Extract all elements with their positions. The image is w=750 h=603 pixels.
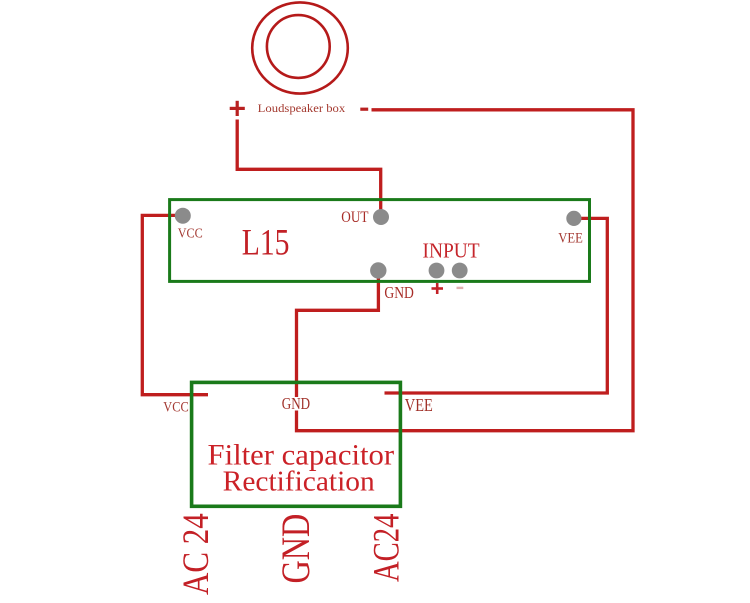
svg-text:AC 24: AC 24: [176, 513, 217, 595]
svg-text:GND: GND: [282, 394, 310, 413]
terminal + of loudspeaker: [230, 101, 245, 116]
svg-text:OUT: OUT: [341, 209, 369, 226]
pad VCC of L15: [175, 208, 191, 224]
svg-text:VCC: VCC: [163, 399, 188, 415]
loudspeaker SP1 inner ring: [267, 15, 330, 78]
svg-text:INPUT: INPUT: [423, 239, 480, 262]
pad OUT of L15: [373, 209, 389, 225]
pad GND of L15: [370, 262, 386, 278]
svg-text:Loudspeaker box: Loudspeaker box: [258, 102, 346, 115]
svg-text:VCC: VCC: [178, 226, 203, 241]
svg-text:VEE: VEE: [558, 231, 583, 247]
wire from - terminal to GND net (right side loop down to filter board GND): [297, 110, 634, 431]
label + of INPUT: [432, 283, 444, 294]
wire from L15 GND pad down-left to filter board GND: [297, 272, 379, 399]
svg-text:VEE: VEE: [405, 395, 433, 415]
svg-text:L15: L15: [242, 222, 290, 263]
wire from L15 VEE pad to filter board VEE: [385, 218, 608, 393]
svg-text:Rectification: Rectification: [223, 465, 375, 497]
board U1 L15 amplifier outline: [170, 200, 590, 282]
pad INPUT -: [452, 263, 468, 279]
loudspeaker SP1 outer ring: [252, 2, 348, 93]
white backing of filter GND label: [280, 397, 312, 411]
svg-text:GND: GND: [384, 283, 414, 302]
board U2 filter capacitor rectification outline: [192, 382, 401, 506]
terminal - of loudspeaker: [360, 108, 368, 111]
wire from + terminal to OUT pad of L15: [237, 120, 381, 216]
svg-text:GND: GND: [273, 514, 318, 584]
wire from L15 VCC pad to filter board VCC: [142, 215, 208, 394]
pad VEE of L15: [566, 211, 581, 226]
label - of INPUT: [457, 287, 464, 289]
svg-text:AC24: AC24: [366, 514, 407, 582]
pad INPUT +: [429, 263, 445, 279]
